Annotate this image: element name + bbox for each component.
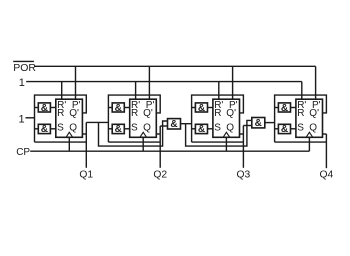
svg-text:S: S [131, 123, 138, 134]
wire U1 Q feedback return (bottom wrap) [35, 141, 87, 143]
wire U1 R-bar drop from 1 bus [61, 82, 63, 100]
svg-text:&: & [41, 103, 48, 114]
wire U1 Q output stub [82, 133, 86, 135]
svg-text:&: & [255, 118, 262, 129]
wire AND3b input stub [192, 128, 196, 130]
svg-text:Q4: Q4 [320, 170, 334, 181]
svg-text:&: & [198, 124, 205, 135]
svg-text:Q': Q' [143, 108, 153, 119]
wire U3 R-bar drop from 1 bus [218, 82, 220, 100]
flip-flop U1 box [56, 99, 83, 137]
flip-flop U4 box [296, 99, 323, 137]
wire U1 clock drop to CP [68, 137, 70, 151]
svg-text:R: R [57, 108, 64, 119]
AND gate 3c (carry) [168, 119, 181, 131]
wire U2 P-bar drop from POR bus [148, 66, 150, 99]
svg-text:Q: Q [309, 123, 317, 134]
svg-text:POR: POR [13, 62, 36, 74]
svg-text:S: S [57, 123, 64, 134]
wire Q1 output vertical [85, 122, 87, 167]
wire U3 Q feedback return (bottom wrap) [192, 141, 244, 143]
svg-text:1: 1 [19, 77, 25, 89]
wire U3 P-bar drop from POR bus [232, 66, 234, 99]
wire AND3b output to S [208, 128, 213, 130]
svg-text:Q2: Q2 [153, 170, 167, 181]
svg-text:&: & [281, 103, 288, 114]
wire AND4c output to stage4 enable (T4) [265, 122, 275, 124]
svg-text:&: & [115, 124, 122, 135]
svg-text:1: 1 [19, 113, 25, 125]
AND gate 3a (R steering) [195, 103, 207, 114]
wire U1 P-bar drop from POR bus [75, 66, 77, 99]
svg-text:&: & [170, 119, 177, 130]
svg-text:R: R [214, 108, 221, 119]
wire AND4a output to R [291, 107, 296, 109]
svg-text:&: & [198, 103, 205, 114]
svg-text:S: S [214, 123, 221, 134]
wire AND2a input stub [108, 107, 112, 109]
U4 clock wedge [306, 132, 313, 137]
svg-text:CP: CP [16, 147, 30, 158]
svg-text:Q': Q' [226, 108, 236, 119]
AND gate 2a (R steering) [112, 103, 124, 114]
wire U2 Q output stub [156, 133, 160, 135]
wire 1 to stage1 enable [26, 117, 35, 119]
wire AND2b input stub [108, 128, 112, 130]
svg-text:&: & [115, 103, 122, 114]
AND gate 1b (S steering) [38, 124, 50, 135]
svg-text:R: R [297, 108, 304, 119]
svg-text:&: & [281, 124, 288, 135]
wire U4 R-bar drop from 1 bus [301, 82, 303, 100]
wire U2 clock drop to CP [142, 137, 144, 151]
svg-text:Q: Q [226, 123, 234, 134]
wire T3 carry branch down to AND4c [186, 120, 252, 146]
U3 pin labels [214, 100, 237, 134]
AND gate 1a (R steering) [38, 103, 50, 114]
wire U4 clock drop to CP [308, 137, 310, 151]
wire Q3 output vertical [242, 126, 244, 168]
wire U2 R-bar drop from 1 bus [135, 82, 137, 100]
svg-text:Q: Q [143, 123, 151, 134]
wire AND4b output to S [291, 128, 296, 130]
wire U2 Q feedback return (bottom wrap) [108, 141, 160, 143]
svg-text:Q1: Q1 [79, 170, 93, 181]
wire Q2 to AND3c input [160, 125, 167, 127]
wire AND1b input stub [35, 128, 39, 130]
svg-text:Q': Q' [309, 108, 319, 119]
AND gate 2b (S steering) [112, 124, 124, 135]
U4 pin labels [297, 100, 320, 134]
wire U1 Q-bar feedback loop (top wrap) [35, 95, 87, 142]
wire AND4a input stub [275, 107, 279, 109]
wire AND1b output to S [50, 128, 55, 130]
wire Q1 to stage2 enable (T2) [86, 121, 108, 123]
wire AND2b output to S [124, 128, 129, 130]
svg-text:Q3: Q3 [237, 170, 251, 181]
wire AND1a output to R [50, 107, 55, 109]
U3 clock wedge [223, 132, 230, 137]
wire Q4 output vertical [325, 134, 327, 168]
wire U3 Q output stub [240, 133, 244, 135]
wire U4 P-bar drop from POR bus [315, 66, 317, 99]
wire U4 Q-bar feedback loop (top wrap) [275, 95, 327, 142]
POR input label (active-low, overline) [13, 61, 36, 74]
AND gate 4a (R steering) [278, 103, 290, 114]
U1 pin labels [57, 100, 80, 134]
wire U4 Q feedback return (bottom wrap) [275, 141, 327, 143]
wire Q1 carry branch down to AND3c [99, 121, 168, 146]
wire AND3a input stub [192, 107, 196, 109]
U2 pin labels [131, 100, 154, 134]
wire U4 Q output stub [323, 133, 327, 135]
U2 clock wedge [140, 132, 147, 137]
wire AND3c output to stage3 enable (T3) [181, 123, 192, 125]
svg-text:R: R [131, 108, 138, 119]
wire AND1a input stub [35, 107, 39, 109]
wire AND4b input stub [275, 128, 279, 130]
logic-1 bus wire (to R-bar pins) [26, 81, 302, 83]
wire AND3a output to R [208, 107, 213, 109]
U1 clock wedge [66, 132, 73, 137]
wire Q2 output vertical [159, 126, 161, 168]
AND gate 4c (carry) [252, 118, 265, 130]
wire U3 Q-bar feedback loop (top wrap) [192, 95, 244, 142]
AND gate 4b (S steering) [278, 124, 290, 135]
wire U2 Q-bar feedback loop (top wrap) [108, 95, 160, 142]
svg-text:Q': Q' [69, 108, 79, 119]
flip-flop U2 box [130, 99, 157, 137]
wire AND2a output to R [124, 107, 129, 109]
AND gate 3b (S steering) [195, 124, 207, 135]
svg-text:Q: Q [69, 123, 77, 134]
wire Q3 to AND4c input [243, 125, 251, 127]
POR bus wire [34, 65, 315, 67]
svg-text:S: S [297, 123, 304, 134]
CP clock bus wire [30, 150, 309, 152]
flip-flop U3 box [213, 99, 240, 137]
svg-text:&: & [41, 124, 48, 135]
wire U3 clock drop to CP [225, 137, 227, 151]
